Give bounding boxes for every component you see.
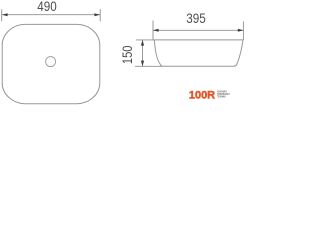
dim 395 right arrowhead bbox=[238, 29, 244, 32]
side view basin outline bbox=[154, 40, 243, 66]
svg-text:395: 395 bbox=[186, 11, 206, 26]
dim 150 top arrowhead bbox=[141, 40, 144, 46]
top view basin outline bbox=[2, 24, 100, 103]
dim 150 bottom extension line bbox=[135, 65, 162, 67]
dim 395 right extension line bbox=[242, 22, 244, 40]
svg-text:490: 490 bbox=[37, 0, 57, 14]
dim 395 left arrowhead bbox=[153, 29, 159, 32]
svg-text:150: 150 bbox=[120, 45, 135, 64]
dim 150 top extension line bbox=[136, 39, 154, 41]
dim 490 line bbox=[2, 14, 100, 16]
dim 490 left extension line bbox=[1, 9, 3, 21]
svg-text:ТЕХНИКИ: ТЕХНИКИ bbox=[217, 95, 226, 98]
svg-text:100R: 100R bbox=[189, 90, 215, 102]
dim 490 right arrowhead bbox=[94, 13, 100, 16]
drain hole bbox=[46, 57, 56, 67]
dim 150 bottom arrowhead bbox=[141, 61, 144, 67]
dim 395 left extension line bbox=[152, 21, 154, 40]
dim 490 left arrowhead bbox=[2, 13, 8, 16]
dim 150 line bbox=[142, 40, 144, 66]
dim 490 right extension line bbox=[99, 9, 101, 21]
dim 395 line bbox=[153, 29, 243, 31]
